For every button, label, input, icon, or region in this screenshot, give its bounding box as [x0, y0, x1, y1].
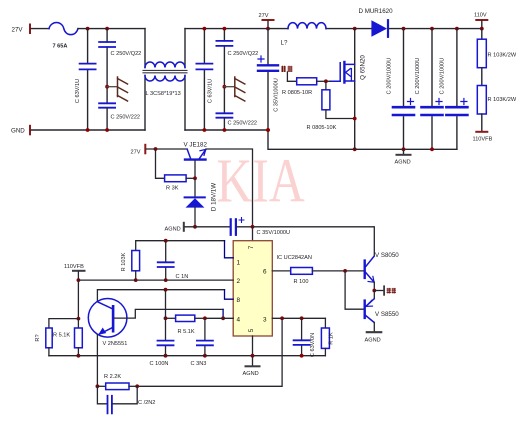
svg-text:C 3N3: C 3N3: [191, 361, 207, 367]
svg-text:C 35V/1000U: C 35V/1000U: [257, 230, 291, 236]
svg-text:1: 1: [237, 260, 241, 267]
resistor R 103K/2W (upper): [481, 29, 483, 40]
svg-text:L 3CS8*19*13: L 3CS8*19*13: [146, 91, 181, 97]
svg-text:R 5.1K: R 5.1K: [53, 333, 70, 339]
wire output rail: [389, 28, 482, 30]
wire pin5 ground: [252, 336, 254, 356]
wire pin6 to R100: [272, 270, 290, 272]
node junction top rail C2: [105, 27, 109, 31]
svg-text:R 103K: R 103K: [121, 252, 127, 271]
resistor R 5.1K (vertical): [77, 319, 79, 328]
svg-text:D MUR1620: D MUR1620: [359, 8, 394, 15]
resistor R 100: [291, 268, 313, 275]
capacitor C 200V/1000U (2): [430, 27, 434, 31]
svg-text:27V: 27V: [131, 150, 141, 156]
svg-text:110V: 110V: [474, 13, 487, 19]
svg-text:C 200V/1000U: C 200V/1000U: [387, 58, 393, 95]
svg-text:R 3K: R 3K: [166, 186, 179, 192]
wire GND rail: [31, 129, 145, 131]
wire GND rail choke to corner: [185, 129, 268, 131]
svg-text:C /2N2: C /2N2: [138, 400, 155, 406]
svg-text:8: 8: [237, 297, 241, 304]
capacitor C 200V/1000U (1): [402, 27, 406, 31]
svg-text:C 1N: C 1N: [176, 274, 189, 280]
capacitor C 3N3: [204, 318, 206, 355]
wire divider middle: [481, 68, 483, 86]
inductor L 3CS8*19*13 common-mode choke: [144, 29, 146, 130]
svg-text:V S8550: V S8550: [375, 311, 399, 318]
resistor R 1K: [324, 318, 326, 328]
transistor Q 65N20 MOSFET: [354, 29, 356, 150]
capacitor C 250V/222 (left bottom Y-cap): [99, 103, 115, 107]
svg-text:AGND: AGND: [395, 160, 411, 166]
diode D MUR1620: [371, 20, 387, 37]
op-amp U1 IC UC2842AN: [233, 241, 272, 336]
svg-text:KIA: KIA: [217, 147, 306, 215]
svg-text:27V: 27V: [12, 27, 24, 34]
svg-text:V S8050: V S8050: [375, 252, 399, 259]
wire top rail choke to 27V node: [185, 28, 268, 30]
svg-text:R 2.2K: R 2.2K: [104, 374, 121, 380]
svg-text:6: 6: [263, 269, 267, 276]
svg-text:C 63V/1U: C 63V/1U: [208, 79, 214, 103]
svg-text:L?: L?: [281, 40, 288, 47]
svg-text:R 5.1K: R 5.1K: [178, 329, 195, 335]
wire 27V to VJE182 collector: [146, 148, 187, 150]
resistor R 103K/2W (lower): [477, 86, 486, 115]
node net 驱动 (emitter stub): [374, 290, 383, 292]
svg-text:IC UC2842AN: IC UC2842AN: [277, 255, 312, 261]
wire base of VJE182: [194, 161, 196, 179]
capacitor C 35V/1000U (27V bulk): [267, 29, 269, 130]
resistor R 3K: [156, 149, 165, 178]
svg-text:R 100: R 100: [294, 279, 309, 285]
ground chassis symbol left: [105, 85, 109, 89]
svg-text:R?: R?: [35, 334, 41, 341]
svg-text:V JE182: V JE182: [184, 142, 208, 149]
svg-text:D 18V/1W: D 18V/1W: [211, 183, 218, 211]
svg-text:R 1K: R 1K: [329, 332, 335, 345]
svg-text:R 103K/2W: R 103K/2W: [488, 53, 517, 59]
svg-text:4: 4: [237, 317, 241, 324]
wire VCC line to S8050 collector: [251, 225, 255, 229]
svg-text:C 200V/1000U: C 200V/1000U: [440, 58, 446, 95]
svg-text:AGND: AGND: [243, 371, 259, 377]
svg-text:C 63V/0N: C 63V/0N: [310, 333, 316, 357]
svg-text:C 250V/Q22: C 250V/Q22: [111, 51, 142, 57]
wire pin3 net: [272, 317, 325, 319]
svg-text:110VFB: 110VFB: [473, 137, 493, 143]
wire 27V to fuse: [31, 28, 49, 30]
svg-text:2: 2: [237, 278, 241, 285]
svg-text:Q 65N20: Q 65N20: [360, 55, 367, 80]
svg-text:AGND: AGND: [365, 338, 381, 344]
wire base split to S8550: [345, 271, 363, 309]
capacitor C 35V/1000U (VCC bulk): [230, 219, 232, 235]
resistor R 103K (feedback): [132, 251, 140, 271]
diode D 18V/1W zener: [194, 178, 196, 197]
svg-text:110VFB: 110VFB: [64, 264, 84, 270]
svg-text:AGND: AGND: [165, 227, 181, 233]
svg-text:C 200V/1000U: C 200V/1000U: [415, 58, 421, 95]
wire pin8 net (VREF line): [97, 290, 224, 302]
svg-text:27V: 27V: [259, 13, 269, 19]
resistor R?: [46, 328, 52, 348]
svg-text:C 250V/Q22: C 250V/Q22: [228, 51, 259, 57]
capacitor C 63V/1U (input X-cap left): [87, 29, 89, 130]
resistor R 0805-10R: [297, 78, 317, 85]
svg-text:7 65A: 7 65A: [53, 44, 68, 50]
capacitor C 250V/Q22 (right top Y-cap): [223, 29, 225, 113]
inductor L?: [268, 28, 371, 30]
svg-text:C 35V/1000U: C 35V/1000U: [274, 78, 280, 112]
capacitor C /2N2: [97, 386, 107, 404]
wire AGND rail: [268, 130, 457, 149]
svg-text:R 103K/2W: R 103K/2W: [488, 97, 517, 103]
ground chassis symbol right: [223, 85, 227, 89]
wire bottom AGND rail: [49, 355, 326, 357]
svg-text:C 250V/222: C 250V/222: [228, 121, 258, 127]
node 110VFB terminal (right): [481, 114, 483, 131]
wire 110VFB branch down: [77, 280, 79, 319]
capacitor C 100N: [165, 290, 167, 356]
wire pin2 net (VFB line): [78, 279, 233, 281]
svg-text:7: 7: [248, 245, 255, 249]
wire 2N5551 emitter down: [96, 335, 98, 387]
capacitor C 250V/222 (right bottom Y-cap): [216, 113, 232, 117]
capacitor C 63V/1U (second): [203, 29, 205, 130]
svg-text:GND: GND: [11, 128, 25, 135]
transistor V 2N5551: [88, 299, 127, 338]
capacitor C 1N: [165, 241, 167, 280]
ground AGND symbol (IC): [252, 356, 254, 366]
capacitor C 250V/Q22 (left top Y-cap): [106, 29, 108, 103]
svg-text:V 2N5551: V 2N5551: [103, 341, 128, 347]
svg-text:3: 3: [263, 317, 267, 324]
wire VJE182 emitter to VCC drop: [206, 149, 253, 241]
wire top rail fuse to choke: [78, 28, 145, 30]
node junction top rail C1: [86, 27, 90, 31]
svg-text:C 63V/1U: C 63V/1U: [75, 79, 81, 103]
fuse F 65A: [49, 23, 78, 35]
wire 2N5551 base to pin4 net: [114, 309, 223, 318]
ground AGND symbol (output): [403, 149, 405, 154]
svg-text:C 250V/222: C 250V/222: [111, 115, 141, 121]
resistor R 2.2K: [97, 385, 105, 387]
svg-text:C 100N: C 100N: [150, 361, 169, 367]
resistor R 0805-10K: [325, 81, 327, 90]
wire pin1 net (comp): [136, 241, 225, 251]
resistor R 5.1K (horizontal): [166, 317, 176, 319]
node net 驱动 (gate drive stub): [282, 66, 293, 71]
svg-text:R 0805-10K: R 0805-10K: [307, 125, 337, 131]
svg-text:R 0805-10R: R 0805-10R: [282, 90, 312, 96]
svg-text:5: 5: [248, 328, 255, 332]
ground AGND (S8550 collector): [367, 331, 381, 333]
wire pin3 sense line down-left: [137, 318, 282, 386]
capacitor C 200V/1000U (3): [455, 27, 459, 31]
capacitor C 63V/0N: [301, 318, 303, 355]
